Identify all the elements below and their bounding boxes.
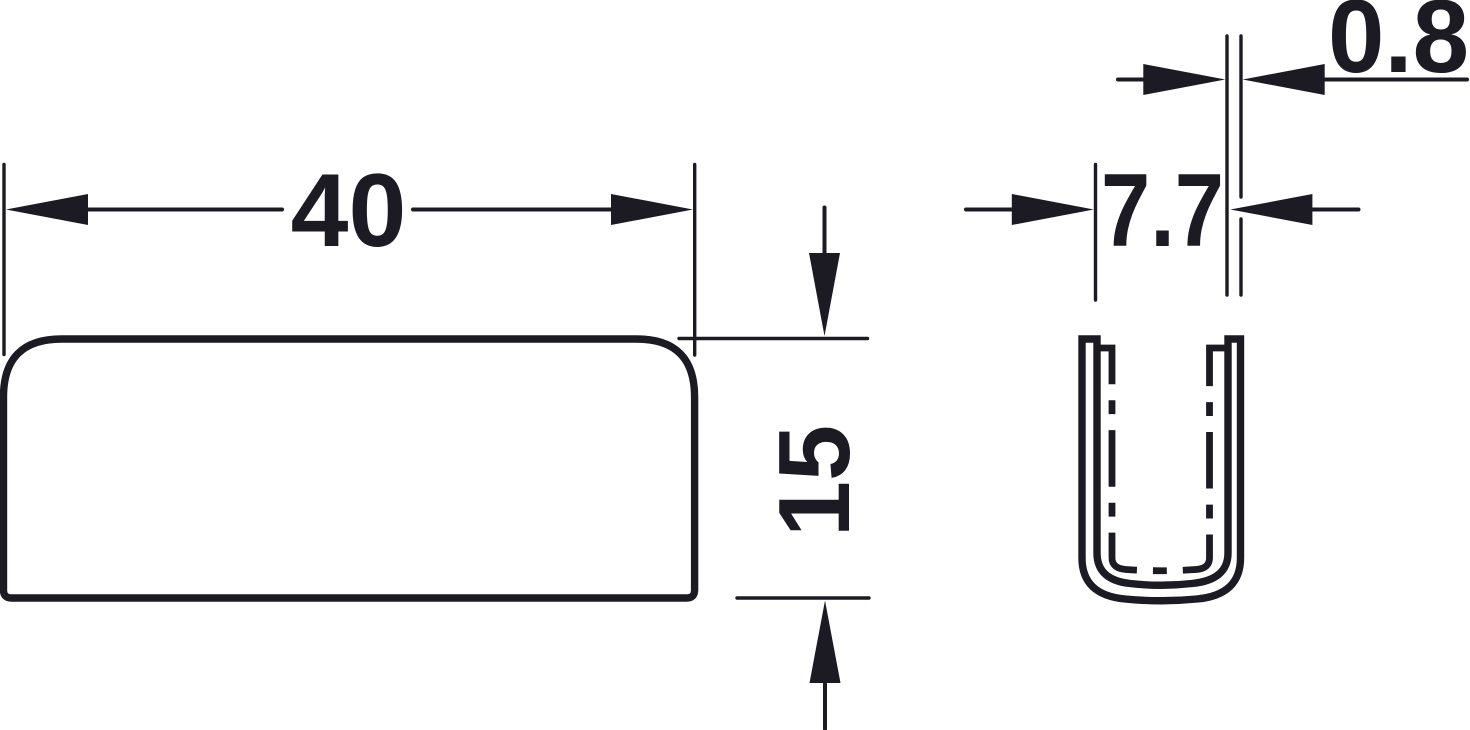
dim 40: right extension line <box>693 165 696 356</box>
dim 7.7: left arrowhead pointing right <box>1012 194 1094 225</box>
dim 40: left arrowhead <box>6 194 88 225</box>
dim 7.7: right arrowhead pointing left <box>1230 194 1312 225</box>
dim 7.7: left extension line <box>1094 165 1097 301</box>
dim 40: dimension line left segment <box>87 208 282 212</box>
dim 15: lower arrow line <box>823 684 827 729</box>
svg-text:15: 15 <box>759 425 871 537</box>
dim 0.8: right arrow line <box>1324 78 1467 82</box>
svg-text:7.7: 7.7 <box>1101 153 1224 269</box>
front view: cover cap outline <box>4 339 695 598</box>
dim 0.8: outer extension line lower segment <box>1239 219 1242 295</box>
dim 7.7: right arrow line <box>1312 208 1359 212</box>
dim 40: left extension line <box>2 165 5 355</box>
dim 15: top extension line <box>679 337 868 340</box>
dim 15: upper arrow line <box>823 208 827 256</box>
svg-text:40: 40 <box>291 153 407 269</box>
dim 15: bottom extension line <box>737 596 869 599</box>
section view: inner dash-dot lip contour <box>1097 348 1228 571</box>
dim 40: right arrowhead <box>611 194 693 225</box>
dim 15: lower arrowhead pointing up <box>810 601 841 684</box>
dim 0.8: outer extension line upper segment <box>1239 36 1242 197</box>
dim 0.8: right arrowhead pointing left <box>1243 64 1325 95</box>
dim 15: upper arrowhead pointing down <box>809 253 840 336</box>
dim 0.8: inner extension line <box>1225 36 1228 295</box>
svg-text:0.8: 0.8 <box>1328 0 1469 95</box>
dim 0.8: left arrowhead pointing right <box>1143 64 1225 95</box>
dim 40: dimension line right segment <box>413 208 612 212</box>
dim 7.7: left arrow line <box>966 208 1014 212</box>
dim 0.8: left arrow line <box>1118 78 1146 82</box>
section view: outer and inner contour of U-profile <box>1082 339 1241 601</box>
